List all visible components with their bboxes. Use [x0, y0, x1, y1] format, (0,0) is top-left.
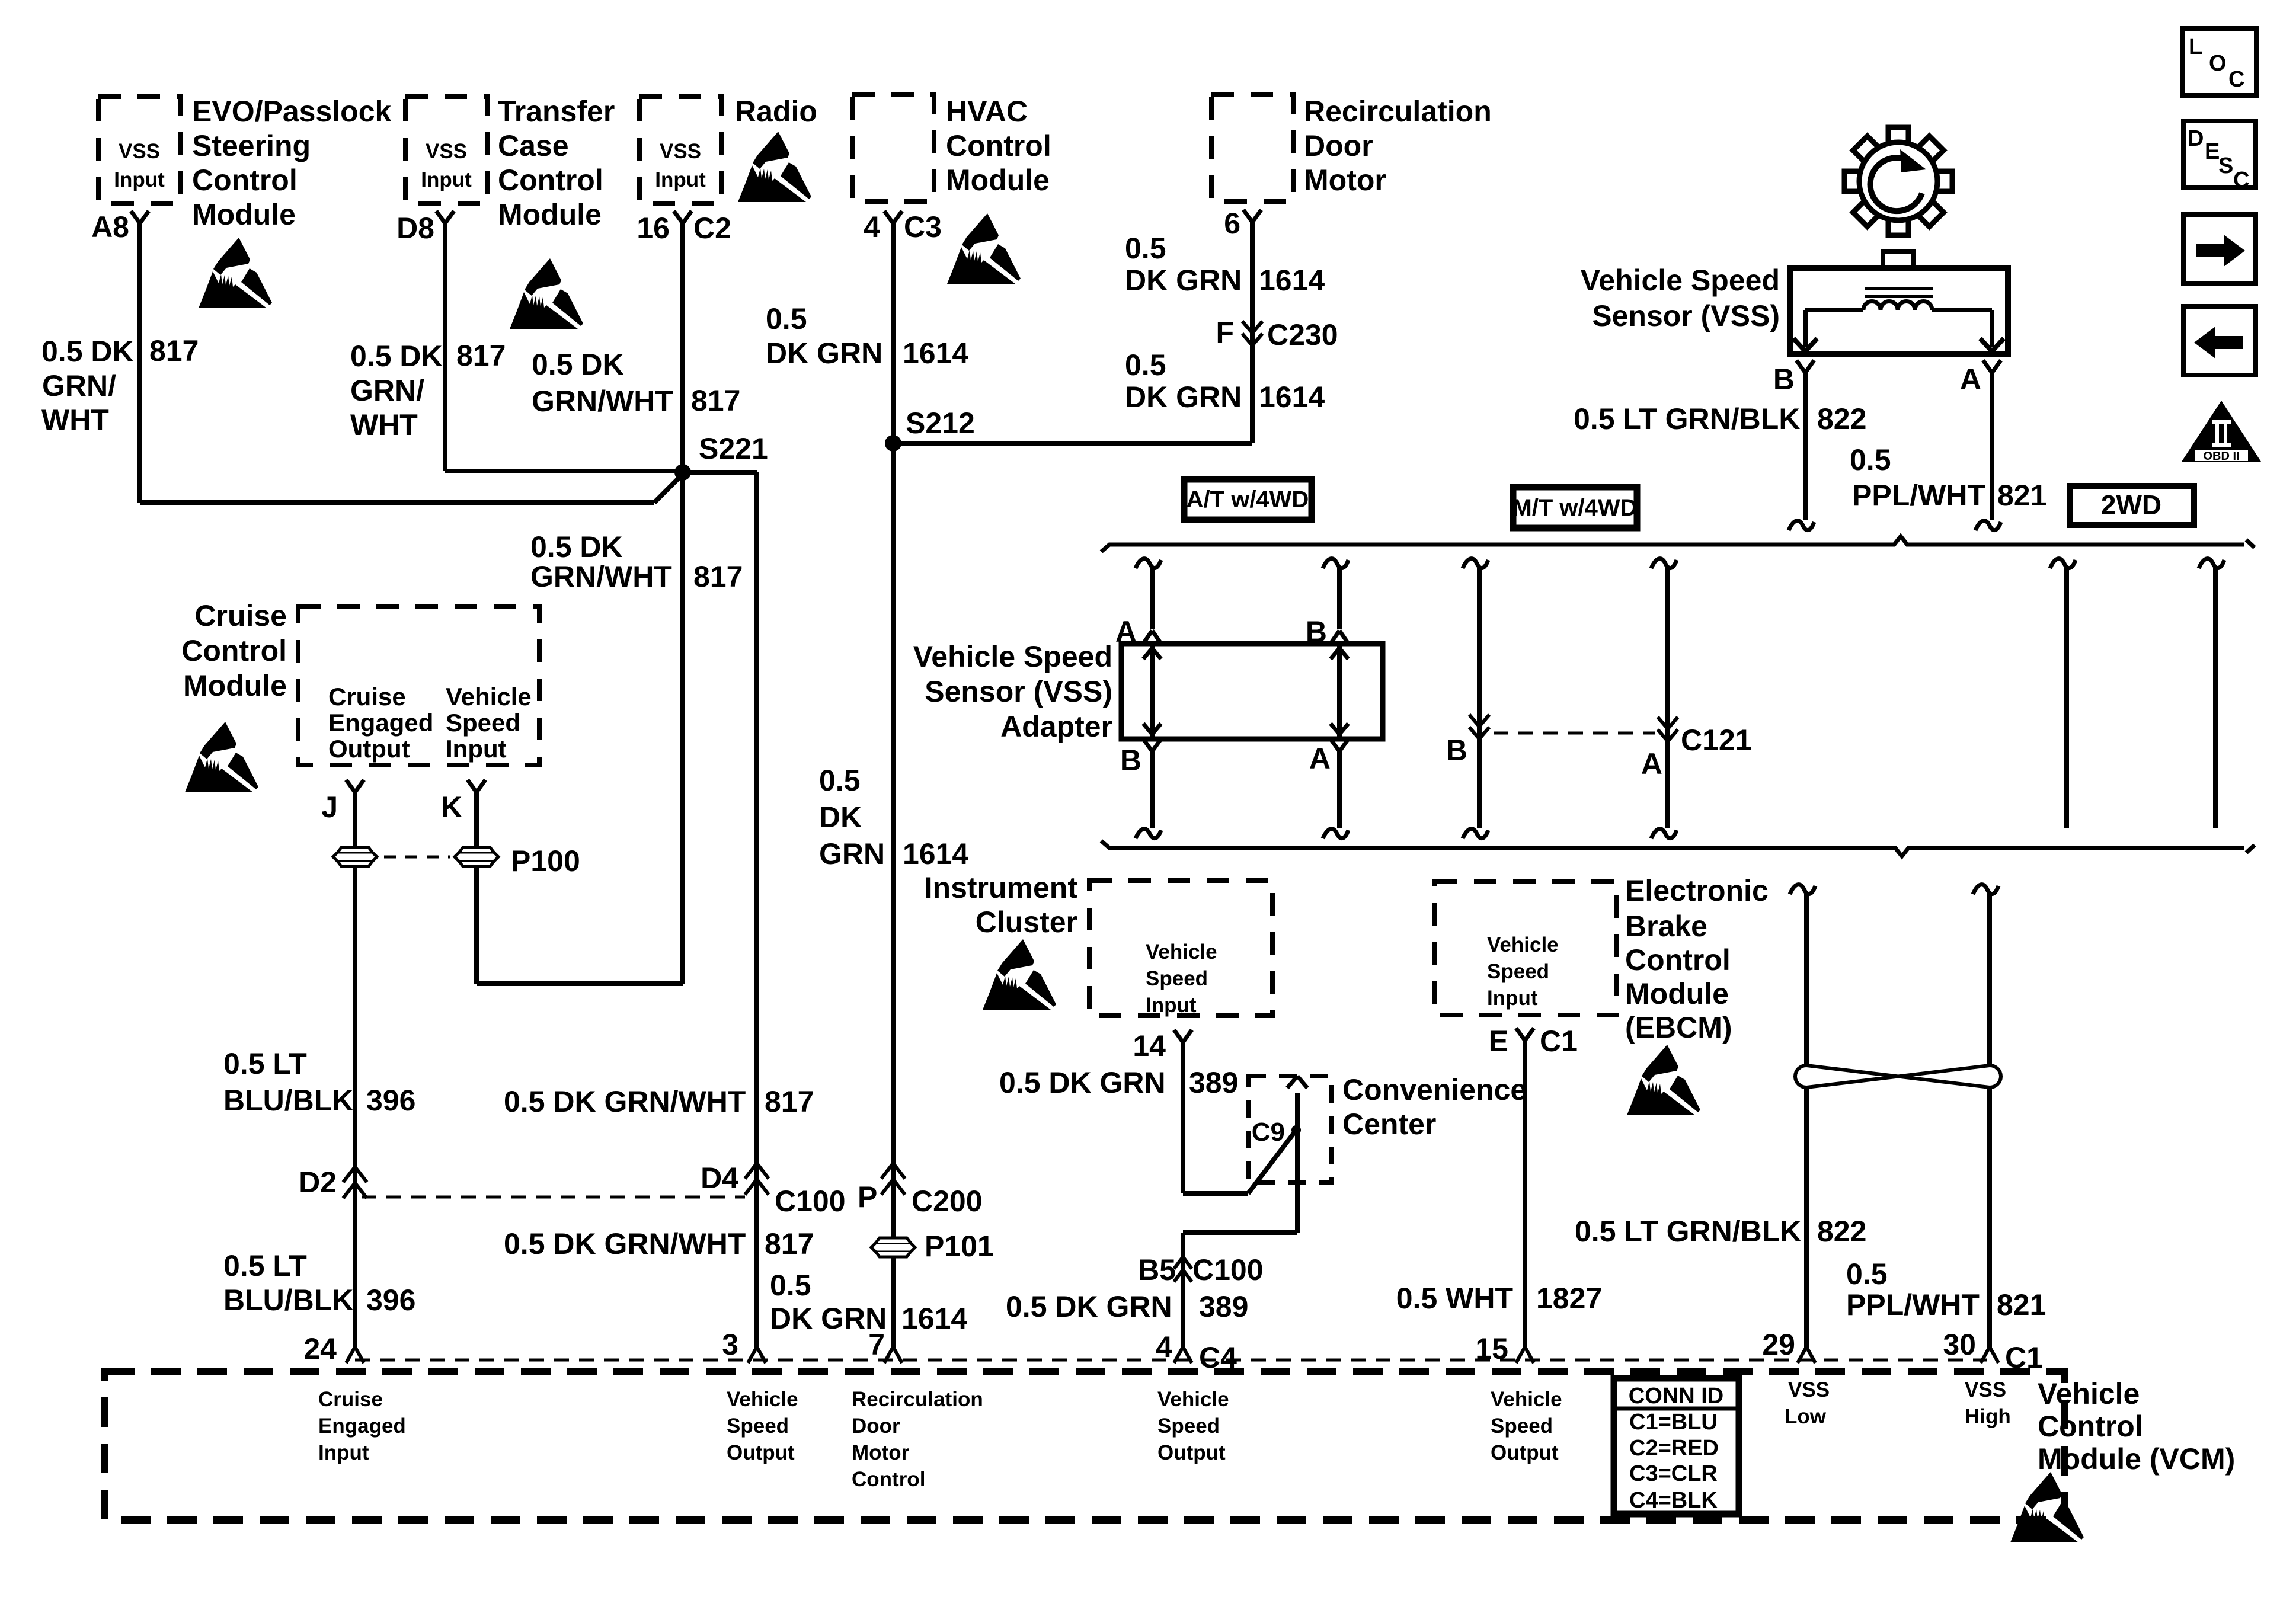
svg-text:Electronic: Electronic [1625, 874, 1769, 907]
svg-text:Instrument: Instrument [925, 871, 1078, 904]
svg-text:0.5 DK GRN: 0.5 DK GRN [999, 1066, 1166, 1099]
svg-text:A8: A8 [91, 210, 129, 244]
svg-text:Door: Door [852, 1414, 900, 1438]
svg-text:817: 817 [456, 339, 506, 372]
svg-text:S: S [2218, 153, 2233, 178]
svg-text:Case: Case [498, 129, 569, 162]
svg-text:C200: C200 [912, 1185, 983, 1218]
svg-text:DK GRN: DK GRN [1125, 380, 1242, 414]
svg-text:Control: Control [1625, 943, 1731, 977]
svg-text:Speed: Speed [1487, 960, 1549, 983]
svg-text:A: A [1309, 742, 1331, 775]
svg-text:DK GRN: DK GRN [766, 337, 882, 370]
svg-text:0.5 DK: 0.5 DK [530, 530, 623, 564]
svg-text:GRN/WHT: GRN/WHT [532, 385, 673, 418]
svg-text:J: J [321, 791, 338, 824]
svg-text:Door: Door [1304, 129, 1373, 162]
svg-text:29: 29 [1762, 1328, 1795, 1361]
svg-text:0.5: 0.5 [1846, 1257, 1888, 1291]
svg-text:VSS: VSS [1788, 1378, 1830, 1401]
svg-text:Cruise: Cruise [194, 599, 287, 632]
svg-text:0.5 LT GRN/BLK: 0.5 LT GRN/BLK [1574, 402, 1800, 436]
svg-text:389: 389 [1199, 1290, 1248, 1323]
svg-text:B: B [1120, 744, 1141, 777]
svg-text:C3=CLR: C3=CLR [1629, 1461, 1718, 1486]
svg-text:Module: Module [946, 164, 1050, 197]
svg-text:Brake: Brake [1625, 910, 1707, 943]
svg-text:C: C [2228, 67, 2244, 92]
svg-text:VSS: VSS [119, 140, 160, 163]
svg-text:C1=BLU: C1=BLU [1629, 1410, 1718, 1435]
svg-text:Radio: Radio [735, 95, 817, 128]
svg-text:0.5: 0.5 [1125, 348, 1166, 382]
svg-text:Engaged: Engaged [318, 1414, 406, 1438]
svg-text:0.5 DK: 0.5 DK [350, 340, 443, 373]
svg-text:0.5 DK GRN: 0.5 DK GRN [1006, 1290, 1172, 1323]
svg-text:P101: P101 [925, 1230, 994, 1263]
svg-text:GRN/: GRN/ [42, 369, 116, 402]
svg-text:Center: Center [1342, 1108, 1436, 1141]
svg-text:WHT: WHT [350, 408, 418, 441]
svg-text:GRN/WHT: GRN/WHT [530, 560, 672, 593]
svg-text:817: 817 [691, 384, 740, 417]
svg-text:3: 3 [722, 1328, 738, 1361]
svg-text:822: 822 [1817, 402, 1866, 436]
svg-text:Control: Control [498, 164, 603, 197]
svg-text:817: 817 [765, 1085, 814, 1118]
svg-text:B5: B5 [1138, 1253, 1176, 1286]
svg-text:Sensor (VSS): Sensor (VSS) [925, 675, 1112, 708]
svg-text:Input: Input [446, 735, 507, 763]
svg-text:C121: C121 [1681, 724, 1752, 757]
svg-text:(EBCM): (EBCM) [1625, 1011, 1732, 1044]
svg-text:O: O [2209, 51, 2227, 76]
svg-text:Input: Input [421, 168, 472, 191]
svg-text:Vehicle Speed: Vehicle Speed [1581, 264, 1780, 297]
svg-text:822: 822 [1817, 1215, 1866, 1248]
svg-text:Cruise: Cruise [328, 683, 406, 711]
svg-text:DK GRN: DK GRN [1125, 264, 1242, 297]
svg-text:PPL/WHT: PPL/WHT [1846, 1288, 1980, 1321]
svg-text:BLU/BLK: BLU/BLK [223, 1284, 353, 1317]
svg-text:1614: 1614 [1259, 264, 1325, 297]
svg-text:Low: Low [1785, 1405, 1827, 1428]
svg-text:Vehicle: Vehicle [1491, 1388, 1562, 1411]
svg-text:Input: Input [1487, 987, 1538, 1010]
svg-text:Vehicle: Vehicle [1487, 933, 1559, 956]
svg-text:817: 817 [693, 560, 743, 593]
svg-text:1614: 1614 [901, 1302, 967, 1335]
svg-text:K: K [441, 791, 462, 824]
svg-text:VSS: VSS [426, 140, 467, 163]
svg-text:821: 821 [1997, 479, 2046, 512]
svg-text:24: 24 [303, 1332, 337, 1365]
svg-text:Convenience: Convenience [1342, 1073, 1527, 1106]
svg-text:Recirculation: Recirculation [1304, 95, 1492, 128]
svg-text:VSS: VSS [1965, 1378, 2006, 1401]
svg-text:Vehicle: Vehicle [1157, 1388, 1229, 1411]
svg-text:4: 4 [1156, 1330, 1172, 1364]
svg-text:Cruise: Cruise [318, 1388, 383, 1411]
svg-text:Control: Control [946, 129, 1051, 162]
svg-text:C2=RED: C2=RED [1629, 1436, 1719, 1461]
svg-text:C1: C1 [1540, 1025, 1578, 1058]
svg-text:A/T w/4WD: A/T w/4WD [1187, 487, 1309, 513]
svg-text:30: 30 [1943, 1328, 1976, 1361]
svg-text:Speed: Speed [1146, 967, 1208, 990]
svg-text:Cluster: Cluster [976, 905, 1077, 939]
svg-text:0.5 DK: 0.5 DK [41, 335, 134, 368]
svg-text:Input: Input [318, 1441, 369, 1464]
svg-text:0.5 DK GRN/WHT: 0.5 DK GRN/WHT [504, 1085, 746, 1118]
svg-text:Control: Control [192, 164, 298, 197]
svg-text:14: 14 [1133, 1029, 1166, 1062]
svg-text:F: F [1216, 316, 1234, 349]
svg-text:1614: 1614 [1259, 380, 1325, 414]
svg-text:0.5 LT: 0.5 LT [223, 1047, 307, 1080]
svg-text:Sensor (VSS): Sensor (VSS) [1592, 299, 1780, 332]
svg-text:Control: Control [2038, 1410, 2143, 1443]
svg-text:D4: D4 [701, 1161, 738, 1195]
svg-text:D8: D8 [396, 212, 434, 245]
svg-text:C4=BLK: C4=BLK [1629, 1488, 1718, 1513]
svg-text:16: 16 [637, 212, 670, 245]
svg-text:Input: Input [1146, 994, 1197, 1017]
svg-text:Speed: Speed [1491, 1414, 1553, 1438]
svg-text:C230: C230 [1267, 318, 1338, 351]
svg-text:A: A [1960, 363, 1981, 396]
svg-text:Input: Input [114, 168, 165, 191]
svg-text:OBD II: OBD II [2203, 450, 2239, 463]
svg-text:B: B [1773, 363, 1795, 396]
svg-text:Vehicle: Vehicle [1146, 940, 1217, 964]
svg-text:Vehicle: Vehicle [446, 683, 532, 711]
svg-text:389: 389 [1189, 1066, 1238, 1099]
svg-text:C: C [2233, 168, 2249, 193]
svg-text:0.5: 0.5 [1125, 232, 1166, 265]
svg-text:P: P [858, 1180, 877, 1214]
svg-text:1614: 1614 [903, 837, 968, 870]
svg-text:L: L [2189, 34, 2202, 59]
svg-text:P100: P100 [511, 844, 580, 878]
svg-text:PPL/WHT: PPL/WHT [1852, 479, 1985, 512]
svg-text:DK: DK [819, 801, 862, 834]
svg-text:0.5 DK: 0.5 DK [532, 348, 624, 381]
svg-text:Output: Output [727, 1441, 795, 1464]
svg-text:Speed: Speed [446, 709, 520, 737]
svg-text:4: 4 [864, 210, 880, 244]
svg-text:S221: S221 [699, 432, 768, 465]
svg-text:1827: 1827 [1536, 1282, 1602, 1315]
svg-text:Recirculation: Recirculation [852, 1388, 983, 1411]
svg-text:817: 817 [149, 334, 199, 367]
svg-text:0.5: 0.5 [819, 764, 861, 797]
svg-text:1614: 1614 [903, 337, 968, 370]
svg-text:Motor: Motor [1304, 164, 1386, 197]
svg-text:C100: C100 [775, 1185, 846, 1218]
svg-text:Input: Input [655, 168, 706, 191]
svg-text:Control: Control [852, 1468, 925, 1491]
svg-text:Module: Module [183, 669, 287, 702]
svg-text:0.5 DK GRN/WHT: 0.5 DK GRN/WHT [504, 1227, 746, 1260]
svg-text:396: 396 [366, 1284, 415, 1317]
svg-text:Adapter: Adapter [1000, 710, 1112, 743]
svg-text:EVO/Passlock: EVO/Passlock [192, 95, 391, 128]
svg-text:0.5: 0.5 [1850, 443, 1891, 476]
svg-text:D: D [2188, 126, 2204, 151]
svg-text:7: 7 [868, 1328, 885, 1361]
svg-text:C9: C9 [1252, 1118, 1285, 1147]
svg-text:Speed: Speed [727, 1414, 789, 1438]
svg-text:C100: C100 [1192, 1253, 1264, 1286]
svg-text:A: A [1641, 747, 1662, 780]
svg-text:CONN ID: CONN ID [1629, 1384, 1723, 1409]
svg-text:Vehicle: Vehicle [727, 1388, 798, 1411]
svg-text:E: E [1489, 1025, 1508, 1058]
svg-text:GRN: GRN [819, 837, 885, 870]
svg-text:821: 821 [1997, 1288, 2046, 1321]
svg-text:S212: S212 [906, 407, 975, 440]
svg-text:M/T w/4WD: M/T w/4WD [1512, 495, 1637, 521]
svg-text:Transfer: Transfer [498, 95, 615, 128]
svg-text:D2: D2 [299, 1166, 337, 1199]
svg-text:0.5: 0.5 [766, 302, 807, 335]
svg-text:Vehicle: Vehicle [2038, 1377, 2140, 1410]
svg-text:Steering: Steering [192, 129, 311, 162]
svg-text:Module: Module [498, 198, 602, 231]
svg-text:High: High [1965, 1405, 2011, 1428]
svg-text:0.5 WHT: 0.5 WHT [1396, 1282, 1513, 1315]
svg-text:Module: Module [192, 198, 296, 231]
svg-text:E: E [2205, 139, 2220, 164]
svg-text:Engaged: Engaged [328, 709, 433, 737]
svg-text:0.5 LT: 0.5 LT [223, 1249, 307, 1282]
svg-text:817: 817 [765, 1227, 814, 1260]
svg-text:0.5 LT GRN/BLK: 0.5 LT GRN/BLK [1575, 1215, 1801, 1248]
svg-text:15: 15 [1475, 1332, 1508, 1365]
svg-text:C3: C3 [904, 210, 942, 244]
svg-text:Output: Output [1491, 1441, 1559, 1464]
svg-text:B: B [1446, 734, 1467, 767]
svg-text:6: 6 [1224, 207, 1240, 240]
svg-text:BLU/BLK: BLU/BLK [223, 1084, 353, 1117]
svg-text:Module: Module [1625, 977, 1729, 1010]
svg-text:Control: Control [181, 634, 287, 667]
svg-text:WHT: WHT [41, 404, 109, 437]
svg-text:Vehicle Speed: Vehicle Speed [913, 640, 1112, 673]
svg-text:C2: C2 [693, 212, 731, 245]
svg-text:2WD: 2WD [2101, 489, 2161, 520]
svg-text:Module (VCM): Module (VCM) [2038, 1442, 2235, 1476]
svg-text:Motor: Motor [852, 1441, 910, 1464]
svg-text:0.5: 0.5 [770, 1269, 811, 1302]
svg-text:Output: Output [1157, 1441, 1226, 1464]
svg-text:396: 396 [366, 1084, 415, 1117]
svg-text:Speed: Speed [1157, 1414, 1220, 1438]
svg-text:VSS: VSS [660, 140, 701, 163]
svg-text:GRN/: GRN/ [350, 374, 424, 407]
svg-text:Output: Output [328, 735, 410, 763]
svg-text:HVAC: HVAC [946, 95, 1028, 128]
